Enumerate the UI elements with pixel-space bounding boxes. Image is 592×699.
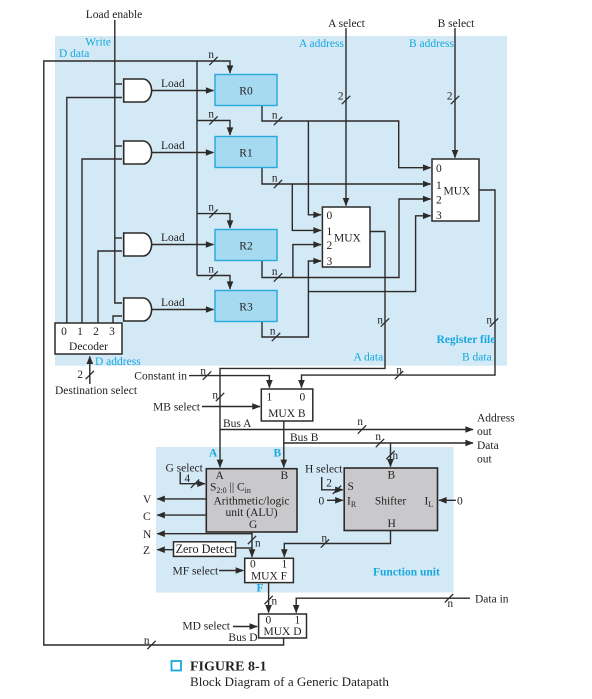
wire A data from A MUX output down to Bus A and ALU A input <box>220 232 385 468</box>
wire D data branch into R2 <box>197 214 230 228</box>
svg-text:n: n <box>144 635 150 647</box>
wire N flag from G bus <box>157 533 252 535</box>
svg-text:n: n <box>208 109 214 121</box>
slash 2 on H select <box>333 486 341 494</box>
svg-text:0: 0 <box>319 496 325 508</box>
slash n on R0 output <box>274 117 282 125</box>
wire D data branch into R1 <box>197 121 230 136</box>
slash n on R3 output <box>272 333 280 341</box>
wire decoder output 0 to AND1 bottom input <box>67 98 122 324</box>
slash n on R2 write feed <box>209 209 217 217</box>
svg-text:2: 2 <box>447 91 453 103</box>
register file background region <box>55 36 507 366</box>
wire R2 output branch to A MUX input 2 <box>293 245 321 278</box>
wire Bus A to Address out <box>220 429 473 431</box>
op ALU box <box>206 469 297 532</box>
slash n on R0 write feed <box>209 57 217 65</box>
svg-text:n: n <box>208 49 214 61</box>
svg-text:2: 2 <box>436 195 442 207</box>
wire decoder output 1 to AND2 bottom input <box>82 159 122 323</box>
slash n on Data in <box>445 594 453 602</box>
svg-text:H select: H select <box>305 464 343 476</box>
slash n on R1 output <box>274 180 282 188</box>
register R2 <box>215 230 277 261</box>
MUX B box (bus B selector) <box>261 389 313 421</box>
svg-text:1: 1 <box>282 559 288 571</box>
svg-text:n: n <box>486 315 492 327</box>
svg-text:B: B <box>274 448 282 460</box>
svg-text:n: n <box>272 266 278 278</box>
svg-text:Constant in: Constant in <box>134 371 187 383</box>
svg-text:FIGURE 8-1: FIGURE 8-1 <box>190 660 267 675</box>
AND gate 1 (R0 load enable) <box>124 79 152 102</box>
slash n on Bus B horizontal <box>376 439 384 447</box>
svg-text:D address: D address <box>95 356 141 368</box>
svg-text:D data: D data <box>59 48 89 60</box>
svg-text:Destination select: Destination select <box>55 385 138 397</box>
register R0 <box>215 75 277 106</box>
slash n on Bus A horizontal <box>358 425 366 433</box>
svg-text:out: out <box>477 453 493 465</box>
wire A select vertical into A MUX <box>345 28 347 206</box>
svg-text:Load: Load <box>161 140 185 152</box>
svg-text:Register file: Register file <box>437 334 496 346</box>
svg-text:Function unit: Function unit <box>373 567 440 579</box>
svg-text:MF select: MF select <box>173 566 219 578</box>
wire MD select into MUX D <box>233 626 257 628</box>
svg-text:n: n <box>448 598 454 610</box>
svg-text:1: 1 <box>327 226 333 238</box>
wire G select into ALU <box>180 472 205 484</box>
B MUX box (MUX B of register file) <box>432 159 479 221</box>
wire MF select into MUX F <box>219 570 243 572</box>
svg-text:n: n <box>393 450 399 462</box>
svg-text:0: 0 <box>436 163 442 175</box>
slash 2 on A select <box>342 96 350 104</box>
wire R3 output branch to B MUX input 3 <box>308 216 430 292</box>
register R3 <box>215 291 277 322</box>
svg-text:n: n <box>270 326 276 338</box>
slash n on Constant in <box>203 371 211 379</box>
svg-text:G: G <box>249 519 257 531</box>
svg-text:B data: B data <box>462 352 492 364</box>
svg-text:0: 0 <box>266 615 272 627</box>
svg-text:N: N <box>143 529 152 541</box>
svg-text:MD select: MD select <box>182 621 230 633</box>
slash n on R3 write feed <box>209 271 217 279</box>
wire H select into Shifter <box>322 477 343 490</box>
svg-text:Write: Write <box>85 37 111 49</box>
svg-text:Load: Load <box>161 297 185 309</box>
A MUX box (MUX A) <box>322 207 370 267</box>
svg-text:2: 2 <box>327 240 333 252</box>
svg-text:Data in: Data in <box>475 594 509 606</box>
svg-text:MUX D: MUX D <box>263 626 301 638</box>
svg-text:MUX F: MUX F <box>251 571 287 583</box>
wire R2 output to B MUX input 2 <box>262 199 431 278</box>
wire ALU V flag output <box>157 498 206 500</box>
op Shifter box <box>344 468 437 531</box>
wire Destination select up into Decoder <box>89 356 91 384</box>
AND gate 2 (R1 load enable) <box>124 141 152 164</box>
svg-text:Load: Load <box>161 232 185 244</box>
wire 0 into Shifter IL <box>439 499 456 501</box>
slash n on H output <box>321 539 329 547</box>
svg-text:3: 3 <box>436 210 442 222</box>
wire Bus D from MUX D output left and up to D data <box>44 61 284 645</box>
slash 4 on G select <box>191 480 199 488</box>
svg-text:Load enable: Load enable <box>86 9 143 21</box>
wire MUX F output F into MUX D input 0 <box>268 583 270 613</box>
slash n on B data <box>490 318 498 326</box>
MUX F box <box>245 558 294 582</box>
svg-text:V: V <box>143 494 152 506</box>
svg-text:n: n <box>375 431 381 443</box>
svg-text:Z: Z <box>143 545 150 557</box>
svg-text:0: 0 <box>61 326 67 338</box>
svg-text:C: C <box>143 511 151 523</box>
svg-text:Address: Address <box>477 413 515 425</box>
svg-text:Bus B: Bus B <box>290 432 319 444</box>
decoder box <box>55 323 122 354</box>
svg-text:2: 2 <box>338 91 344 103</box>
svg-text:n: n <box>272 596 278 608</box>
svg-text:n: n <box>212 390 218 402</box>
svg-text:MUX B: MUX B <box>268 408 306 420</box>
svg-text:S: S <box>348 481 354 493</box>
svg-text:B select: B select <box>438 18 476 30</box>
wire Constant in to MUX B input 1 <box>189 376 269 388</box>
svg-text:n: n <box>396 365 402 377</box>
slash n on Bus D <box>147 641 155 649</box>
svg-text:MB select: MB select <box>153 402 201 414</box>
wire R1 output to B MUX input 1 <box>262 168 431 185</box>
svg-text:4: 4 <box>185 473 191 485</box>
wire MB select into MUX B <box>202 406 260 408</box>
svg-text:R3: R3 <box>239 302 253 314</box>
wire D data branch into R3 <box>197 276 230 290</box>
svg-text:Load: Load <box>161 78 185 90</box>
wire D data vertical distribution bus <box>196 61 198 276</box>
slash n on R2 output <box>274 273 282 281</box>
wire Load enable vertical down to AND4 top input <box>115 20 122 303</box>
svg-text:0: 0 <box>327 210 333 222</box>
caption square <box>172 661 182 671</box>
svg-text:B: B <box>281 470 289 482</box>
svg-text:n: n <box>255 538 261 550</box>
wire ALU C flag output <box>157 514 206 516</box>
wire G output from ALU into MUX F input 0 <box>251 532 253 557</box>
svg-text:n: n <box>200 366 206 378</box>
svg-text:0: 0 <box>300 392 306 404</box>
svg-text:R2: R2 <box>239 241 253 253</box>
svg-text:Decoder: Decoder <box>69 341 108 353</box>
wire Shifter H output to MUX F input 1 <box>284 531 390 557</box>
svg-text:R1: R1 <box>239 148 253 160</box>
wire R0 output branch to A MUX input 0 <box>308 121 321 215</box>
slash n on A data <box>381 318 389 326</box>
svg-text:Bus D: Bus D <box>228 632 257 644</box>
svg-text:Zero Detect: Zero Detect <box>176 542 234 556</box>
svg-text:n: n <box>272 173 278 185</box>
svg-text:n: n <box>322 533 328 545</box>
svg-text:A address: A address <box>299 38 345 50</box>
svg-text:1: 1 <box>77 326 83 338</box>
wire decoder output 2 to AND3 bottom input <box>98 251 122 323</box>
svg-text:Data: Data <box>477 440 499 452</box>
wire load enable stub to AND1 top input <box>115 83 122 85</box>
svg-text:3: 3 <box>327 256 333 268</box>
svg-text:A: A <box>209 448 218 460</box>
wire AND3 output Load to R2 <box>151 244 214 246</box>
wire load enable stub to AND3 top input <box>115 237 122 239</box>
wire Bus B to Data out <box>284 442 473 444</box>
svg-text:H: H <box>388 518 396 530</box>
slash n on B data horizontal <box>395 371 403 379</box>
svg-text:R0: R0 <box>239 86 253 98</box>
slash n on G output <box>248 536 256 544</box>
svg-text:unit (ALU): unit (ALU) <box>225 507 277 519</box>
register R1 <box>215 137 277 168</box>
wire AND4 output Load to R3 <box>151 309 214 311</box>
svg-text:2: 2 <box>326 478 332 490</box>
svg-text:1: 1 <box>267 392 273 404</box>
svg-text:Arithmetic/logic: Arithmetic/logic <box>213 496 289 508</box>
AND gate 3 (R2 load enable) <box>124 233 152 256</box>
svg-text:A: A <box>216 470 225 482</box>
svg-text:1: 1 <box>295 615 301 627</box>
slash n on R1 write feed <box>209 116 217 124</box>
wire R0 output to B MUX input 0 <box>262 106 431 168</box>
wire Bus B branch into Shifter B input <box>390 443 392 467</box>
svg-text:MUX: MUX <box>444 186 472 198</box>
svg-text:n: n <box>272 110 278 122</box>
svg-text:n: n <box>377 315 383 327</box>
svg-text:n: n <box>208 264 214 276</box>
slash 2 on Destination select <box>86 371 94 379</box>
wire Data in to MUX D input 1 <box>296 598 470 612</box>
svg-text:Shifter: Shifter <box>375 496 406 508</box>
wire AND2 output Load to R1 <box>151 152 214 154</box>
svg-text:B address: B address <box>409 38 455 50</box>
svg-text:3: 3 <box>109 326 115 338</box>
wire 0 into Shifter IR <box>327 499 343 501</box>
svg-text:A data: A data <box>354 352 384 364</box>
wire B select vertical into B MUX <box>454 28 456 158</box>
wire R3 output up to A MUX input 3 <box>262 261 321 337</box>
slash n on MUX F output <box>264 596 272 604</box>
svg-text:MUX: MUX <box>334 233 362 245</box>
svg-text:0: 0 <box>250 559 256 571</box>
wire B data from B MUX output down to MUX B input 0 <box>302 190 496 388</box>
svg-text:1: 1 <box>436 180 442 192</box>
AND gate 4 (R3 load enable) <box>124 298 152 321</box>
function unit background region <box>156 447 454 593</box>
wire load enable stub to AND2 top input <box>115 145 122 147</box>
wire AND1 output Load to R0 <box>151 90 214 92</box>
svg-text:Bus A: Bus A <box>223 418 252 430</box>
svg-text:B: B <box>388 470 396 482</box>
svg-text:2: 2 <box>77 369 83 381</box>
svg-text:n: n <box>208 202 214 214</box>
Zero Detect box <box>174 542 236 557</box>
svg-text:out: out <box>477 426 493 438</box>
wire decoder output 3 to AND4 bottom input <box>113 316 122 323</box>
MUX D box <box>259 614 307 638</box>
slash n on Bus A vertical <box>216 393 224 401</box>
wire Zero Detect input from G bus <box>236 547 252 549</box>
wire Z flag from Zero Detect <box>157 549 174 551</box>
svg-text:n: n <box>357 416 363 428</box>
svg-text:2: 2 <box>93 326 99 338</box>
slash n on Shifter B feed <box>386 451 394 459</box>
svg-text:F: F <box>257 583 264 595</box>
slash 2 on B select <box>451 96 459 104</box>
svg-text:A select: A select <box>328 18 366 30</box>
wire R1 output branch to A MUX input 1 <box>292 184 321 230</box>
svg-text:Block Diagram of a Generic Dat: Block Diagram of a Generic Datapath <box>190 674 389 689</box>
wire MUX B output down through Bus B into ALU B input <box>283 421 285 467</box>
svg-text:0: 0 <box>457 496 463 508</box>
